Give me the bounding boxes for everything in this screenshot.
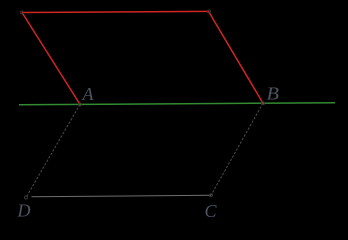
node A dot [79, 103, 82, 106]
node F (top-right vertex) dot [208, 10, 211, 13]
wire: side AD (dim dotted) [26, 104, 80, 197]
wire: side DC (gray horizontal) [32, 195, 212, 197]
svg-text:A: A [82, 84, 95, 104]
node E (top-left vertex) dot [21, 11, 24, 14]
wire: red right edge to B [209, 11, 264, 103]
wire: red top edge of upper parallelogram [22, 11, 209, 12]
svg-text:B: B [267, 83, 280, 103]
wire: side BC (dim dotted) [211, 103, 263, 195]
node B dot [262, 102, 265, 105]
node C dot [210, 194, 213, 197]
node D dot [25, 196, 28, 199]
svg-text:D: D [17, 201, 31, 221]
wire: red left edge to A [22, 13, 80, 105]
line AB (green, extended) [19, 103, 335, 105]
svg-text:C: C [205, 201, 218, 221]
